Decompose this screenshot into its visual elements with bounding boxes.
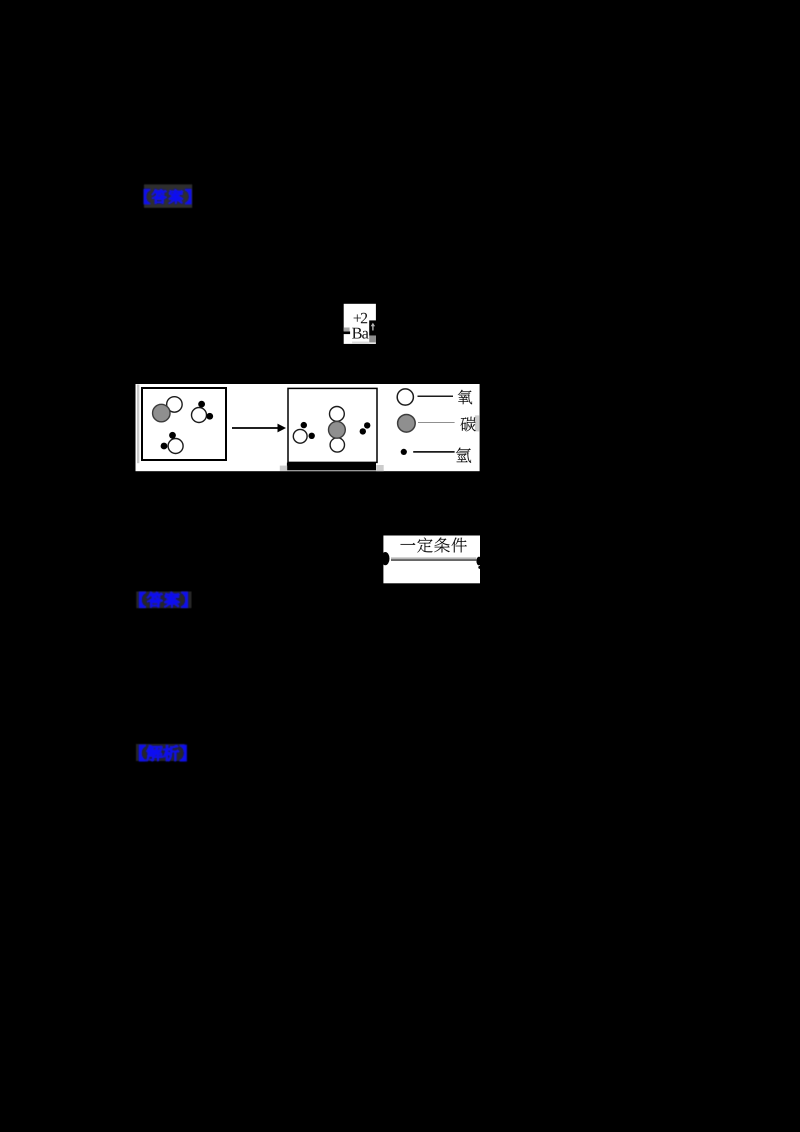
black band under right box [287, 463, 376, 471]
light gray strip at figure left edge [137, 385, 139, 464]
legend: carbon line [418, 422, 455, 424]
H2O molecule 1: hydrogen atoms [198, 401, 205, 408]
gray selection handle mid-right near 碳 [475, 415, 480, 431]
answer label 2 highlight box [136, 592, 191, 609]
Ba element symbol [352, 328, 362, 339]
right product box [288, 388, 377, 462]
legend: hydrogen line [413, 451, 454, 453]
gray selection handle bottom-right of right box [376, 465, 384, 471]
CO2 molecule: oxygen atom bottom [330, 438, 344, 452]
product H2O: hydrogen atom top [301, 422, 307, 428]
H2O molecule 1: oxygen atom [192, 408, 207, 423]
analysis label 3 highlight box [136, 744, 185, 761]
black blob left [381, 552, 389, 565]
CO molecule: oxygen atom [167, 397, 183, 413]
black dot right lower [478, 566, 481, 569]
double rule dark line [391, 559, 476, 561]
answer label 1 text 【答案】 [144, 190, 190, 204]
light strip bottom of Ba box [352, 342, 369, 344]
text 一定条件 [400, 543, 415, 545]
Ba +2 valence figure: white background [344, 304, 376, 344]
legend: carbon label 碳 [461, 417, 476, 432]
dash mark left of Ba [343, 331, 350, 334]
CO2 molecule: carbon atom [329, 421, 346, 438]
legend: hydrogen symbol dot [401, 449, 407, 455]
gray artifact left [344, 328, 350, 332]
legend: oxygen symbol circle [397, 389, 413, 405]
gray handle bottom-right of Ba box [369, 336, 376, 343]
legend: hydrogen label 氫 [456, 448, 471, 463]
H2O molecule 2: oxygen atom [168, 439, 183, 454]
H2O molecule 2: hydrogen atoms [169, 432, 176, 439]
legend: oxygen line [418, 395, 454, 397]
reaction condition white background [383, 536, 480, 584]
legend: carbon symbol circle [398, 415, 416, 433]
black blob right [476, 557, 481, 566]
answer label 2 text 【答案】 [140, 592, 188, 607]
left reactant box [142, 388, 226, 460]
gray caret arrow inside [371, 323, 375, 331]
product H2O: oxygen atom [293, 429, 307, 443]
black caret box right [369, 320, 376, 335]
legend: oxygen label 氧 [458, 390, 472, 404]
product H2O: hydrogen atom right [309, 433, 315, 439]
analysis label 3 text 【解析】 [140, 745, 186, 760]
+2 superscript text [354, 314, 361, 321]
double rule light line [391, 557, 476, 559]
H2 molecule: hydrogen atoms [364, 422, 370, 428]
gray selection handle bottom-left of right box [280, 466, 287, 471]
CO molecule: carbon atom [153, 404, 171, 422]
answer label 1 highlight box [144, 184, 192, 207]
CO2 molecule: oxygen atom top [330, 407, 345, 422]
molecule figure white background [136, 384, 480, 471]
reaction arrow [232, 427, 278, 429]
